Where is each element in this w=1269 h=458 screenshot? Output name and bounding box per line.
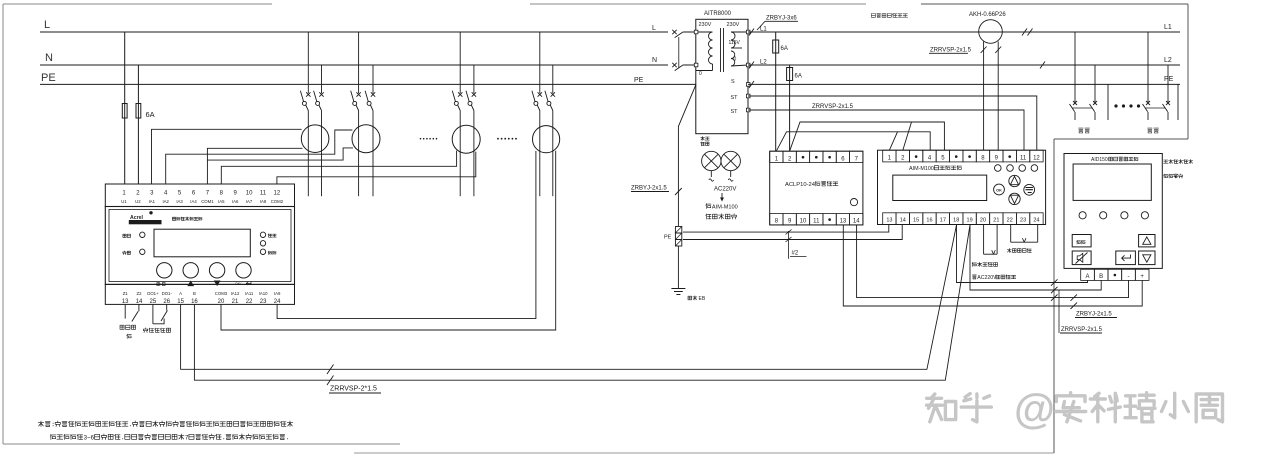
svg-text:IA4: IA4 (190, 199, 197, 204)
svg-text:L1: L1 (1164, 24, 1172, 31)
svg-text:17: 17 (940, 218, 946, 224)
svg-text:PE: PE (664, 235, 672, 241)
svg-text:11: 11 (1020, 156, 1027, 162)
svg-text:ST: ST (731, 95, 739, 101)
svg-text:25: 25 (150, 299, 157, 305)
svg-text:ST: ST (731, 109, 739, 115)
svg-text:L1: L1 (760, 27, 767, 33)
svg-text:AIM-M100: AIM-M100 (712, 205, 738, 211)
svg-text:19: 19 (967, 218, 973, 224)
svg-text:21: 21 (232, 299, 239, 305)
svg-text:IA7: IA7 (246, 199, 253, 204)
svg-text:L2: L2 (1164, 57, 1172, 64)
svg-text:DO1-: DO1- (162, 291, 173, 296)
svg-text:ZRRVSP-2x1.5: ZRRVSP-2x1.5 (812, 104, 854, 110)
svg-text:AITR8000: AITR8000 (704, 11, 732, 17)
svg-text:20: 20 (218, 299, 225, 305)
svg-text:U2: U2 (135, 199, 141, 204)
svg-text:115V: 115V (729, 40, 741, 46)
svg-text:-: - (1128, 274, 1130, 280)
svg-text:IA12: IA12 (231, 291, 240, 296)
svg-text:N: N (652, 57, 657, 64)
svg-text:15: 15 (913, 218, 919, 224)
svg-text:6A: 6A (795, 74, 802, 80)
svg-text:OK: OK (996, 188, 1002, 192)
svg-text:ZRBYJ-3x6: ZRBYJ-3x6 (766, 16, 797, 22)
svg-text:14: 14 (853, 219, 860, 225)
svg-text:AC220V: AC220V (977, 275, 997, 281)
svg-text:AIM-M100: AIM-M100 (909, 166, 934, 172)
svg-text:10: 10 (246, 191, 253, 197)
svg-text:B: B (193, 291, 196, 296)
svg-text:IA8: IA8 (260, 199, 267, 204)
svg-text:21: 21 (993, 218, 999, 224)
svg-text:AKH-0.66P26: AKH-0.66P26 (969, 12, 1006, 18)
svg-text:DO1+: DO1+ (147, 291, 159, 296)
svg-text:B: B (1099, 274, 1103, 280)
svg-text:@: @ (1014, 385, 1055, 432)
svg-text:N: N (45, 52, 53, 64)
svg-text:Z2: Z2 (137, 291, 143, 296)
svg-text:AC220V: AC220V (714, 187, 736, 193)
svg-text:COM3: COM3 (215, 291, 228, 296)
svg-text:11: 11 (813, 219, 820, 225)
svg-text:A: A (179, 291, 182, 296)
svg-text:ZRRVSP-2x1.5: ZRRVSP-2x1.5 (1061, 327, 1103, 333)
svg-text:#2: #2 (792, 251, 799, 257)
svg-text:3~6: 3~6 (84, 436, 95, 442)
svg-text:13: 13 (886, 218, 892, 224)
svg-text:12: 12 (1033, 156, 1040, 162)
svg-text:18: 18 (953, 218, 959, 224)
svg-text:23: 23 (260, 299, 267, 305)
svg-text:S: S (731, 79, 735, 85)
svg-text:13: 13 (840, 219, 847, 225)
svg-text:0: 0 (734, 57, 737, 63)
svg-text:ACLP10-24: ACLP10-24 (785, 182, 816, 188)
svg-text:PE: PE (1164, 76, 1174, 83)
svg-text:15: 15 (177, 299, 184, 305)
svg-text:13: 13 (122, 299, 129, 305)
svg-text:AID150: AID150 (1091, 157, 1108, 163)
svg-text:COM2: COM2 (271, 199, 284, 204)
svg-text:24: 24 (1033, 218, 1039, 224)
svg-text:ZRRVSP-2x1.5: ZRRVSP-2x1.5 (930, 48, 972, 54)
svg-text:20: 20 (980, 218, 986, 224)
svg-text:IA10: IA10 (259, 291, 268, 296)
svg-text:IA2: IA2 (162, 199, 169, 204)
svg-text:EB: EB (699, 296, 706, 302)
svg-text:26: 26 (163, 299, 170, 305)
svg-text:PE: PE (41, 72, 56, 84)
svg-text:12: 12 (274, 191, 281, 197)
svg-text:16: 16 (191, 299, 198, 305)
svg-text:+: + (1140, 274, 1144, 280)
svg-text:6A: 6A (781, 46, 788, 52)
svg-text:230V: 230V (727, 22, 740, 28)
svg-text:U1: U1 (121, 199, 127, 204)
svg-text:230V: 230V (699, 22, 712, 28)
svg-text:COM1: COM1 (201, 199, 214, 204)
svg-text:IA1: IA1 (149, 199, 156, 204)
svg-text:L: L (652, 25, 656, 32)
svg-text:16: 16 (926, 218, 932, 224)
svg-text:11: 11 (260, 191, 267, 197)
svg-text:24: 24 (274, 299, 281, 305)
svg-text:ZRBYJ-2x1.5: ZRBYJ-2x1.5 (631, 186, 667, 192)
svg-text:IA9: IA9 (274, 291, 281, 296)
svg-text:ZRBYJ-2x1.5: ZRBYJ-2x1.5 (1076, 312, 1112, 318)
svg-text:IA11: IA11 (245, 291, 254, 296)
svg-text:22: 22 (246, 299, 253, 305)
svg-text:IA6: IA6 (232, 199, 239, 204)
svg-text:6A: 6A (146, 110, 155, 119)
svg-text:L2: L2 (760, 60, 767, 66)
svg-text:22: 22 (1007, 218, 1013, 224)
svg-text:10: 10 (800, 219, 807, 225)
svg-text:0: 0 (699, 71, 702, 77)
svg-text:Z1: Z1 (123, 291, 129, 296)
svg-text:14: 14 (900, 218, 906, 224)
svg-text:ZRRVSP-2*1.5: ZRRVSP-2*1.5 (330, 386, 377, 393)
svg-text:IA5: IA5 (218, 199, 225, 204)
svg-text:A: A (1086, 274, 1090, 280)
svg-text:PE: PE (634, 77, 644, 84)
svg-text:14: 14 (136, 299, 143, 305)
svg-text:23: 23 (1020, 218, 1026, 224)
svg-text:L: L (44, 19, 50, 31)
svg-text:IA3: IA3 (176, 199, 183, 204)
